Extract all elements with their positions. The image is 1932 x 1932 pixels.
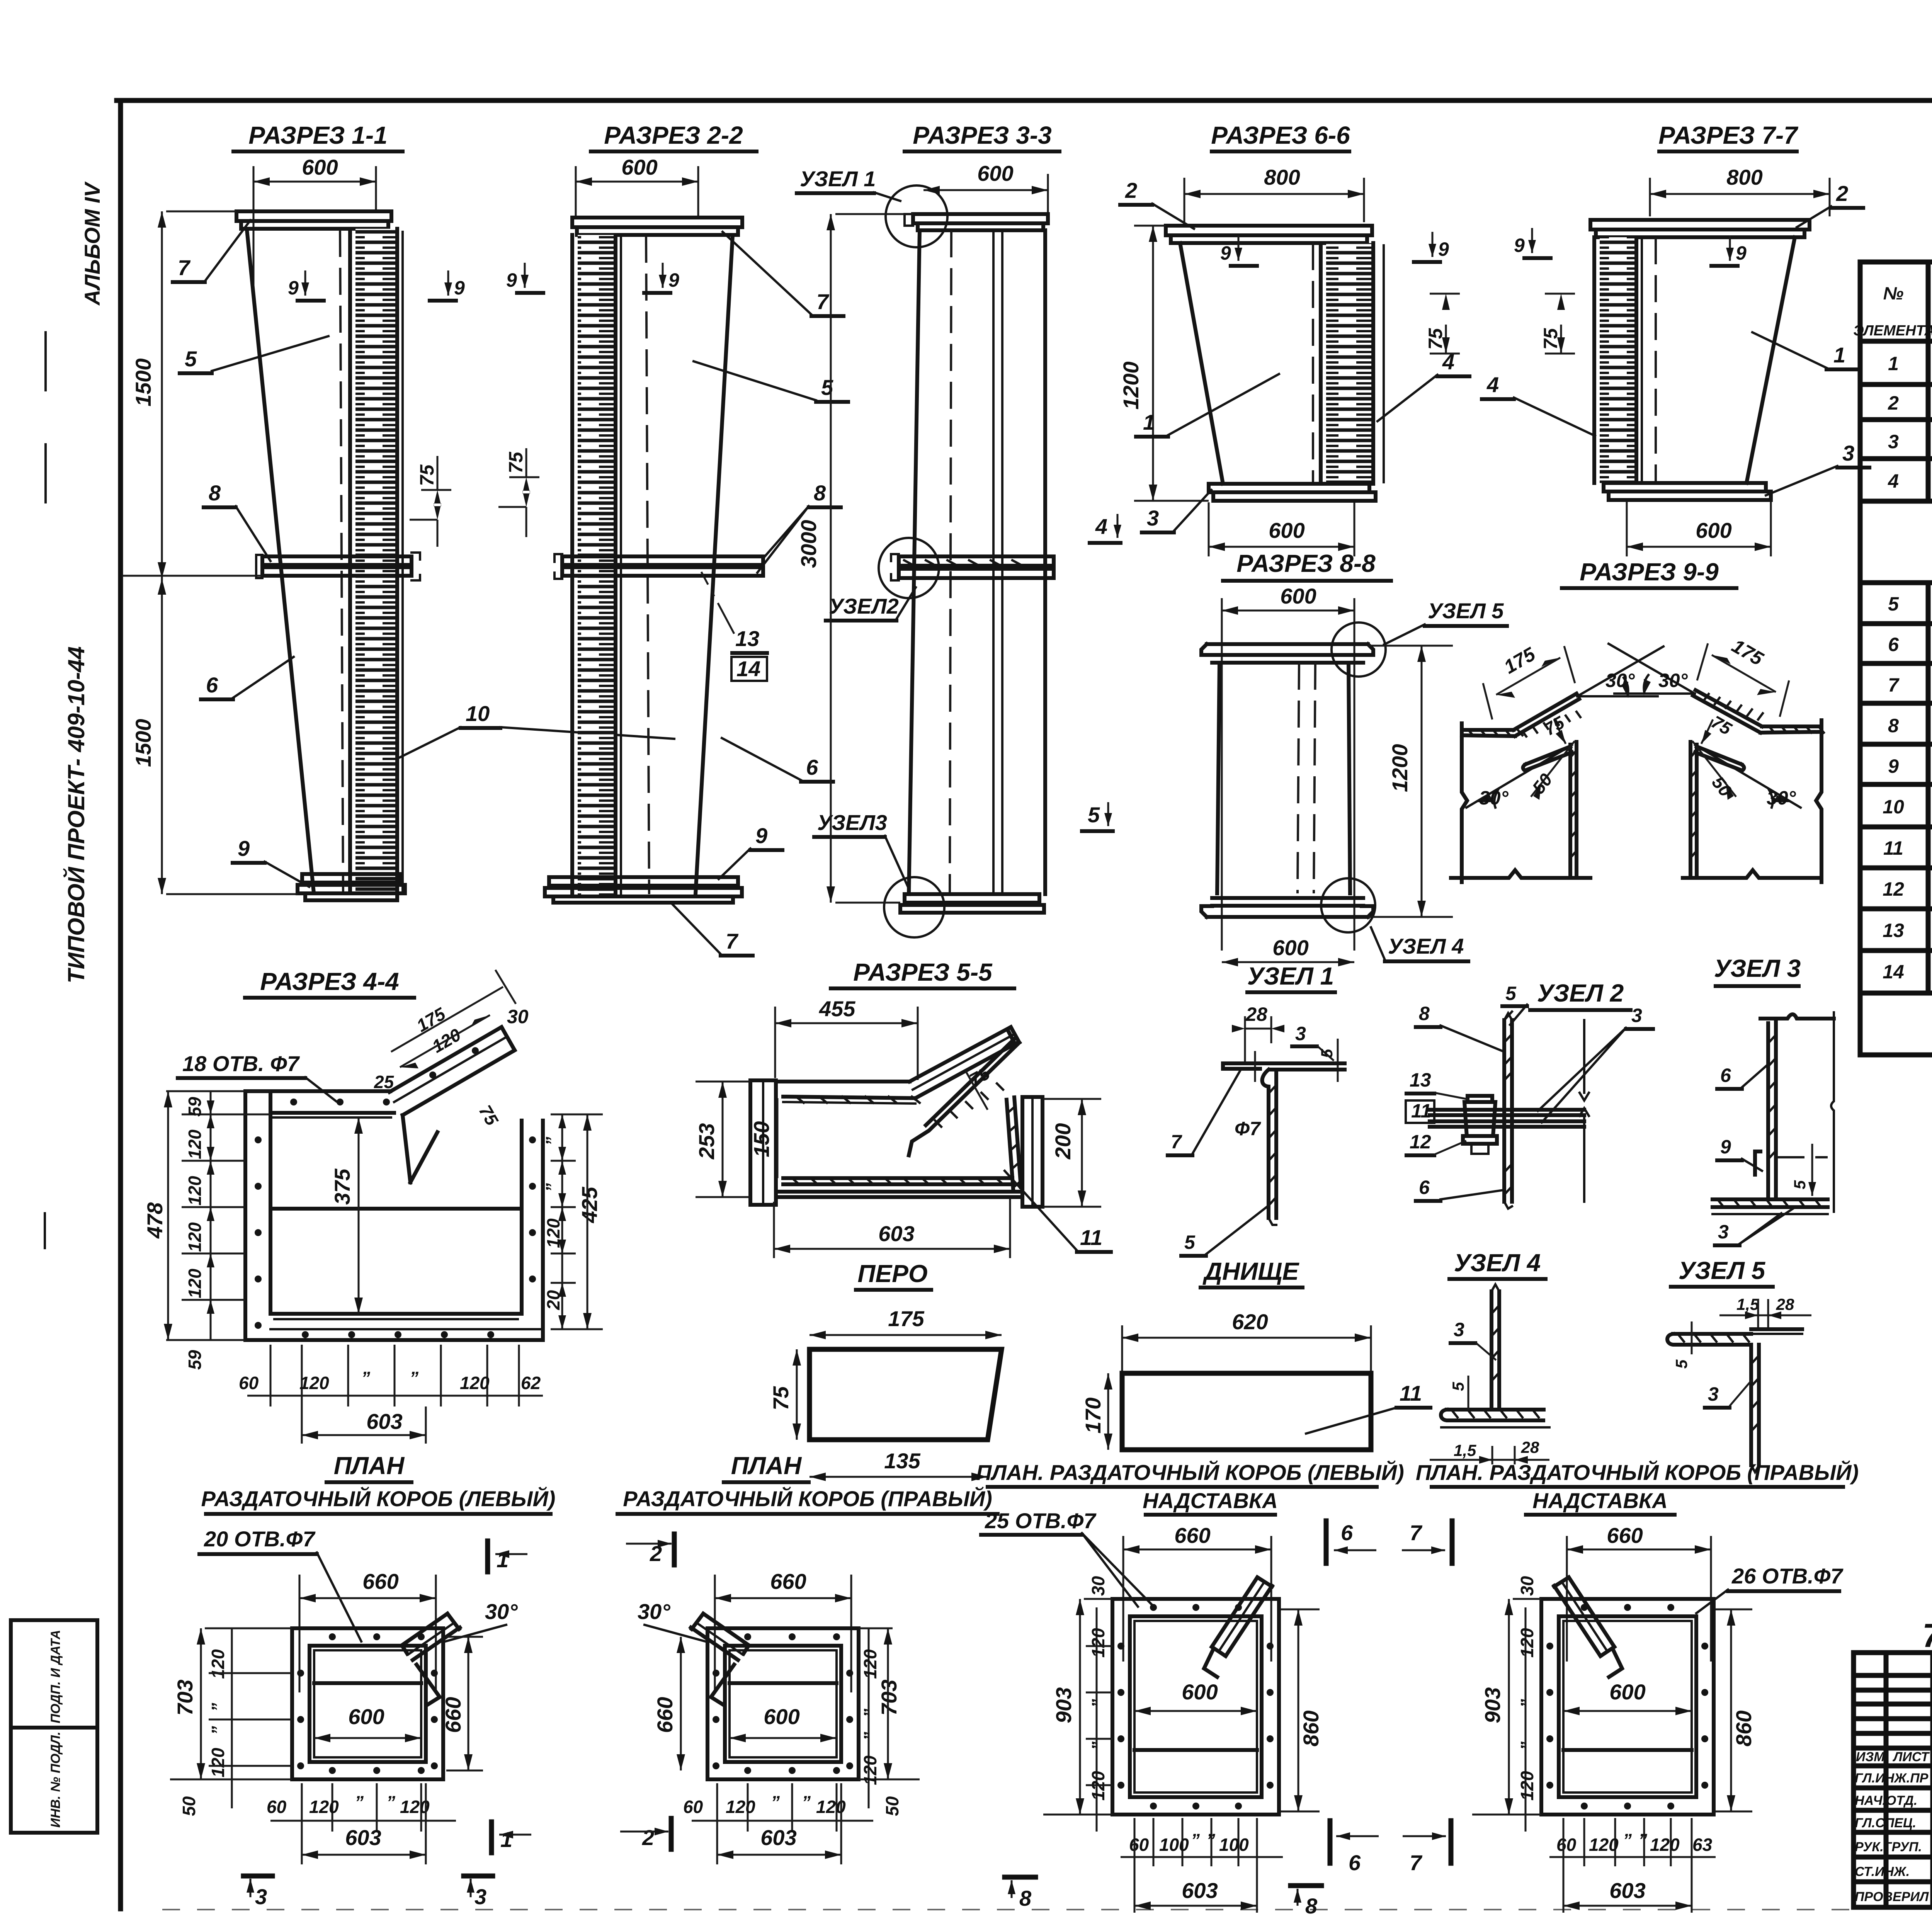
svg-text:9: 9	[506, 269, 517, 291]
vertical plate	[1490, 1291, 1493, 1410]
thin plate 3 on top	[1751, 1327, 1802, 1331]
svg-text:12: 12	[1410, 1131, 1431, 1153]
svg-text:13: 13	[1883, 920, 1904, 941]
svg-text:5: 5	[1888, 593, 1899, 615]
specification table	[1853, 231, 1932, 1055]
svg-text:7: 7	[816, 289, 830, 314]
svg-text:6: 6	[1419, 1177, 1430, 1198]
horizontal wall plate	[1462, 728, 1514, 732]
middle joint flange	[899, 556, 1054, 566]
top flange bar	[572, 218, 742, 227]
svg-text:Ф7: Ф7	[1235, 1118, 1261, 1139]
section Razrez 2-2	[498, 121, 848, 956]
svg-text:120: 120	[185, 1269, 205, 1298]
svg-text:660: 660	[1607, 1523, 1643, 1548]
left columns	[1884, 1653, 1889, 1907]
DNISHE detail	[1081, 1257, 1430, 1450]
svg-text:РАЗДАТОЧНЫЙ КОРОБ (ЛЕВЫЙ): РАЗДАТОЧНЫЙ КОРОБ (ЛЕВЫЙ)	[201, 1486, 556, 1511]
horizontal plates	[1430, 1108, 1584, 1112]
lower corner gusset	[1755, 1151, 1760, 1175]
svg-text:120: 120	[1088, 1628, 1108, 1658]
middle joint flange	[262, 556, 412, 565]
flag 9 marks	[288, 270, 465, 301]
svg-text:”: ”	[771, 1792, 780, 1812]
svg-text:11: 11	[1883, 837, 1903, 859]
box	[1112, 1599, 1279, 1815]
svg-text:УЗЕЛ2: УЗЕЛ2	[829, 594, 899, 618]
svg-text:10: 10	[1883, 796, 1904, 818]
svg-text:”: ”	[208, 1726, 228, 1735]
vertical plate	[1568, 745, 1572, 878]
vertical dim 1500+1500	[161, 211, 163, 894]
svg-text:2: 2	[1125, 178, 1137, 202]
svg-text:6: 6	[206, 673, 218, 697]
svg-text:30°: 30°	[1658, 670, 1688, 691]
svg-text:375: 375	[330, 1168, 354, 1205]
svg-text:620: 620	[1232, 1310, 1268, 1334]
svg-text:УЗЕЛ 4: УЗЕЛ 4	[1388, 934, 1464, 958]
svg-text:РАЗРЕЗ 2-2: РАЗРЕЗ 2-2	[604, 121, 743, 149]
svg-text:3000: 3000	[796, 520, 821, 568]
bottom flange with curl	[1441, 1410, 1543, 1420]
top wall	[776, 1080, 910, 1083]
bottom flange	[549, 877, 738, 886]
svg-text:13: 13	[735, 626, 759, 651]
svg-text:5: 5	[1791, 1180, 1809, 1189]
svg-text:478: 478	[143, 1202, 167, 1239]
uzel 5 detail	[1667, 1257, 1811, 1472]
svg-text:АЛЬБОМ IV: АЛЬБОМ IV	[80, 181, 104, 306]
svg-text:4: 4	[1486, 372, 1499, 397]
uzel 4 circle	[1321, 878, 1375, 932]
section Razrez 3-3	[796, 121, 1121, 937]
svg-text:УЗЕЛ 3: УЗЕЛ 3	[1714, 954, 1801, 982]
svg-text:6: 6	[1349, 1850, 1361, 1875]
svg-text:1200: 1200	[1388, 744, 1412, 792]
svg-text:425: 425	[577, 1187, 602, 1223]
frame left	[118, 100, 123, 1909]
svg-text:603: 603	[345, 1825, 381, 1850]
chute (branch) top right	[389, 1027, 502, 1092]
svg-text:РАЗРЕЗ 7-7: РАЗРЕЗ 7-7	[1658, 121, 1799, 149]
svg-text:СТ.ИНЖ.: СТ.ИНЖ.	[1855, 1864, 1910, 1879]
right band dots	[529, 1136, 536, 1143]
uzel 4 detail	[1430, 1249, 1549, 1464]
svg-text:600: 600	[1280, 584, 1316, 608]
svg-text:600: 600	[302, 155, 338, 179]
svg-text:РАЗРЕЗ 8-8: РАЗРЕЗ 8-8	[1236, 549, 1376, 577]
svg-text:8: 8	[1888, 715, 1899, 736]
svg-text:6: 6	[1888, 634, 1899, 655]
svg-text:6: 6	[806, 755, 818, 779]
top band with dots	[270, 1111, 394, 1115]
svg-text:ГЛ.ИНЖ.ПР: ГЛ.ИНЖ.ПР	[1855, 1771, 1929, 1786]
svg-text:120: 120	[1517, 1628, 1537, 1658]
svg-text:660: 660	[362, 1569, 398, 1594]
svg-text:11: 11	[1400, 1381, 1422, 1405]
bottom wall	[783, 1176, 1012, 1180]
svg-text:600: 600	[1182, 1680, 1218, 1704]
svg-text:НАДСТАВКА: НАДСТАВКА	[1532, 1488, 1668, 1513]
svg-text:60: 60	[1129, 1835, 1149, 1855]
svg-text:9: 9	[238, 836, 250, 861]
svg-text:8: 8	[814, 481, 826, 505]
svg-text:8: 8	[1419, 1003, 1430, 1024]
svg-text:5: 5	[1184, 1231, 1196, 1253]
svg-text:4: 4	[1888, 470, 1899, 492]
svg-text:№: №	[1883, 283, 1904, 303]
svg-text:”: ”	[1191, 1830, 1200, 1850]
svg-text:3: 3	[474, 1884, 486, 1909]
svg-text:28: 28	[1245, 1003, 1267, 1025]
svg-text:30: 30	[507, 1006, 529, 1027]
svg-text:60: 60	[267, 1797, 287, 1817]
svg-text:30°: 30°	[1605, 670, 1635, 691]
svg-text:УЗЕЛ 5: УЗЕЛ 5	[1679, 1257, 1766, 1284]
svg-text:”: ”	[1638, 1830, 1647, 1850]
svg-text:10: 10	[466, 701, 490, 726]
svg-text:7: 7	[1410, 1520, 1423, 1545]
svg-text:5: 5	[1318, 1049, 1336, 1058]
svg-text:5: 5	[1505, 983, 1517, 1004]
svg-text:60: 60	[239, 1373, 259, 1393]
svg-text:600: 600	[1696, 518, 1731, 543]
right vertical band	[1007, 1097, 1021, 1189]
svg-text:9: 9	[1514, 235, 1525, 256]
svg-text:120: 120	[185, 1176, 205, 1206]
svg-text:7922/8: 7922/8	[1922, 1617, 1932, 1654]
svg-text:1: 1	[1833, 343, 1845, 367]
svg-text:75: 75	[769, 1386, 793, 1410]
svg-text:РАЗРЕЗ 6-6: РАЗРЕЗ 6-6	[1211, 121, 1350, 149]
hidden dashed line	[1777, 1156, 1828, 1158]
middle joint flange	[562, 556, 763, 565]
flange plate stack left strip	[1600, 237, 1636, 483]
svg-text:120: 120	[1650, 1835, 1680, 1855]
bolt assembly	[1468, 1096, 1492, 1102]
fold line + 600	[314, 1681, 421, 1685]
dashed axis	[1312, 243, 1314, 484]
svg-text:800: 800	[1726, 165, 1762, 189]
svg-text:170: 170	[1081, 1398, 1105, 1434]
svg-text:1: 1	[1143, 410, 1155, 434]
fold lines + 600	[1134, 1748, 1257, 1752]
svg-text:25 ОТВ.Ф7: 25 ОТВ.Ф7	[985, 1509, 1097, 1533]
svg-text:”: ”	[860, 1709, 880, 1718]
svg-text:603: 603	[1609, 1878, 1645, 1903]
svg-text:”: ”	[410, 1368, 418, 1388]
left corner detail	[1451, 643, 1663, 882]
svg-text:2: 2	[1888, 392, 1899, 414]
svg-text:62: 62	[521, 1373, 541, 1393]
svg-text:1,5: 1,5	[1736, 1295, 1759, 1313]
dim 1200 left	[1152, 226, 1154, 501]
svg-text:”: ”	[860, 1732, 880, 1741]
top flange bar	[913, 214, 1048, 223]
svg-text:ПЛАН. РАЗДАТОЧНЫЙ КОРОБ (ПРАВ: ПЛАН. РАЗДАТОЧНЫЙ КОРОБ (ПРАВЫЙ)	[1416, 1460, 1859, 1485]
dim 50	[1531, 741, 1575, 797]
svg-text:63: 63	[1692, 1835, 1713, 1855]
svg-text:120: 120	[185, 1222, 205, 1252]
svg-text:600: 600	[348, 1704, 384, 1729]
svg-text:75: 75	[505, 451, 527, 473]
box	[707, 1628, 859, 1779]
left band dots	[255, 1136, 262, 1143]
svg-text:13: 13	[1410, 1069, 1431, 1091]
horizontal plates	[1223, 1061, 1345, 1065]
bottom flange	[905, 894, 1039, 903]
svg-text:”: ”	[1088, 1699, 1108, 1708]
svg-text:НАЧ.ОТД.: НАЧ.ОТД.	[1855, 1793, 1917, 1808]
right dims	[551, 1114, 603, 1116]
svg-text:28: 28	[1776, 1295, 1794, 1313]
svg-text:3: 3	[1718, 1221, 1729, 1243]
svg-text:8: 8	[1305, 1894, 1318, 1918]
svg-text:3: 3	[1147, 506, 1159, 530]
bottom dims	[747, 1783, 749, 1832]
svg-text:800: 800	[1264, 165, 1300, 189]
svg-text:”: ”	[802, 1792, 811, 1812]
svg-text:30°: 30°	[485, 1599, 518, 1624]
section flags 2	[672, 1534, 677, 1565]
plan A box	[292, 1628, 443, 1779]
chute upper slope	[910, 1027, 1016, 1098]
svg-text:9: 9	[668, 269, 679, 291]
svg-text:120: 120	[1517, 1771, 1537, 1801]
uzel 3 circle	[884, 877, 944, 937]
flange plate stack left strip	[578, 235, 616, 896]
svg-text:5: 5	[185, 347, 197, 371]
svg-text:30: 30	[1088, 1576, 1108, 1596]
svg-text:ПОДП. И ДАТА: ПОДП. И ДАТА	[48, 1630, 63, 1723]
svg-text:455: 455	[819, 997, 855, 1021]
svg-text:120: 120	[460, 1373, 490, 1393]
svg-text:9: 9	[1888, 755, 1899, 777]
svg-text:ТИПОВОЙ ПРОЕКТ- 409-10-44: ТИПОВОЙ ПРОЕКТ- 409-10-44	[63, 646, 89, 983]
svg-text:600: 600	[621, 155, 657, 179]
outer borders	[1858, 262, 1863, 1055]
svg-text:7: 7	[1888, 674, 1900, 696]
right thin edge with jog	[1831, 1012, 1834, 1212]
section flags 1	[485, 1541, 490, 1572]
plate	[1122, 1373, 1371, 1450]
svg-text:120: 120	[543, 1218, 563, 1248]
svg-text:120: 120	[208, 1649, 228, 1679]
svg-text:ЭЛЕМЕНТА: ЭЛЕМЕНТА	[1853, 323, 1932, 339]
svg-text:175: 175	[888, 1306, 924, 1331]
margin dash marks	[44, 332, 47, 390]
section Razrez 1-1	[122, 121, 674, 900]
svg-text:150: 150	[749, 1121, 774, 1157]
svg-text:120: 120	[309, 1797, 339, 1817]
svg-text:2: 2	[642, 1825, 654, 1850]
header verticals part1	[1926, 262, 1931, 501]
uzel 3 detail	[1713, 954, 1834, 1245]
svg-text:ПРОВЕРИЛ: ПРОВЕРИЛ	[1855, 1889, 1929, 1904]
chute	[402, 1614, 460, 1660]
part 2 row lines	[1860, 580, 1932, 585]
svg-text:75: 75	[416, 464, 438, 486]
svg-text:1200: 1200	[1119, 361, 1143, 410]
bottom dims	[1153, 1818, 1155, 1866]
svg-text:120: 120	[185, 1129, 205, 1159]
svg-text:703: 703	[173, 1680, 197, 1716]
svg-text:14: 14	[736, 656, 760, 681]
uzel 2 circle	[879, 538, 939, 598]
body right edge taper	[1747, 237, 1795, 483]
svg-text:26 ОТВ.Ф7: 26 ОТВ.Ф7	[1731, 1564, 1844, 1588]
box	[1541, 1599, 1714, 1815]
svg-text:”: ”	[542, 1183, 562, 1192]
svg-text:”: ”	[1623, 1830, 1632, 1850]
angle ref lines + 30deg	[1577, 695, 1658, 697]
svg-text:ПЛАН. РАЗДАТОЧНЫЙ КОРОБ (ЛЕВЫ: ПЛАН. РАЗДАТОЧНЫЙ КОРОБ (ЛЕВЫЙ)	[976, 1460, 1404, 1485]
header bottom + row lines part1	[1860, 339, 1932, 344]
uzel 5 circle	[1332, 622, 1386, 677]
dim 75	[1554, 719, 1566, 744]
svg-text:60: 60	[683, 1797, 703, 1817]
svg-text:7: 7	[1410, 1850, 1423, 1875]
uzel 1 circle	[886, 185, 947, 247]
plan C (levyi nadstavka)	[976, 1460, 1452, 1918]
bottom dims	[332, 1783, 333, 1832]
svg-text:ГЛ.СПЕЦ.: ГЛ.СПЕЦ.	[1855, 1816, 1916, 1830]
svg-text:25: 25	[374, 1072, 395, 1092]
svg-text:9: 9	[1720, 1136, 1731, 1158]
svg-text:”: ”	[208, 1703, 228, 1712]
left margin	[11, 181, 104, 1833]
svg-text:59: 59	[185, 1350, 205, 1370]
svg-text:28: 28	[1521, 1438, 1539, 1456]
svg-text:ИНВ. № ПОДЛ.: ИНВ. № ПОДЛ.	[48, 1731, 63, 1828]
section Razrez 9-9	[1451, 558, 1824, 882]
bottom flange	[1209, 484, 1369, 492]
chute mirrored	[1554, 1577, 1614, 1656]
svg-text:НАДСТАВКА: НАДСТАВКА	[1143, 1488, 1278, 1513]
svg-text:6: 6	[1720, 1065, 1731, 1086]
svg-text:УЗЕЛ3: УЗЕЛ3	[817, 810, 887, 835]
svg-text:903: 903	[1051, 1687, 1076, 1723]
svg-text:100: 100	[1219, 1835, 1249, 1855]
svg-text:”: ”	[1517, 1742, 1537, 1750]
svg-text:РАЗРЕЗ 5-5: РАЗРЕЗ 5-5	[853, 958, 993, 986]
svg-text:РУК.ГРУП.: РУК.ГРУП.	[1855, 1840, 1922, 1854]
section Razrez 7-7	[1482, 121, 1869, 556]
sloped plate 30deg	[1514, 694, 1577, 730]
svg-text:РАЗРЕЗ 9-9: РАЗРЕЗ 9-9	[1580, 558, 1719, 586]
svg-text:РАЗДАТОЧНЫЙ КОРОБ (ПРАВЫЙ): РАЗДАТОЧНЫЙ КОРОБ (ПРАВЫЙ)	[623, 1486, 992, 1511]
svg-text:”: ”	[386, 1792, 395, 1812]
dim 175 along slope	[1496, 658, 1560, 695]
right corner detail (mirror)	[1609, 635, 1824, 882]
svg-text:9: 9	[288, 277, 299, 299]
svg-text:1500: 1500	[131, 719, 155, 767]
PERO detail	[769, 1260, 1002, 1481]
svg-text:УЗЕЛ 5: УЗЕЛ 5	[1428, 599, 1504, 623]
svg-text:50: 50	[882, 1796, 902, 1816]
top flange bar	[1166, 226, 1372, 235]
short bevel plate	[1526, 747, 1570, 764]
svg-text:660: 660	[653, 1697, 677, 1733]
svg-text:660: 660	[1174, 1523, 1210, 1548]
svg-text:18 ОТВ. Ф7: 18 ОТВ. Ф7	[182, 1051, 300, 1076]
bottom flange	[1604, 483, 1766, 492]
svg-text:600: 600	[1272, 935, 1308, 960]
svg-text:20: 20	[543, 1290, 563, 1310]
bottom dims	[1583, 1818, 1585, 1866]
chute	[1212, 1577, 1272, 1656]
svg-text:1,5: 1,5	[1454, 1441, 1476, 1459]
svg-text:12: 12	[1883, 878, 1904, 900]
svg-text:11: 11	[1411, 1100, 1431, 1122]
svg-text:3: 3	[1631, 1005, 1642, 1026]
top flange bar	[1590, 220, 1810, 230]
svg-text:ПЛАН: ПЛАН	[334, 1452, 405, 1480]
flange plate stack (перо) right strip	[355, 229, 397, 893]
svg-text:200: 200	[1051, 1123, 1075, 1160]
svg-text:7: 7	[1171, 1131, 1182, 1153]
svg-text:УЗЕЛ 2: УЗЕЛ 2	[1537, 979, 1624, 1007]
svg-text:120: 120	[726, 1797, 755, 1817]
svg-text:120: 120	[1589, 1835, 1619, 1855]
svg-text:135: 135	[884, 1449, 920, 1473]
left dims	[210, 1091, 212, 1340]
svg-text:9: 9	[1438, 238, 1449, 260]
title block	[1854, 1653, 1932, 1908]
svg-text:120: 120	[860, 1649, 880, 1679]
svg-text:”: ”	[542, 1137, 562, 1146]
svg-text:ПЕРО: ПЕРО	[857, 1260, 927, 1287]
svg-text:59: 59	[185, 1097, 205, 1117]
svg-text:9: 9	[1220, 242, 1231, 264]
vertical plate with hatch	[1262, 1070, 1269, 1218]
bottom-left stamp box	[11, 1620, 97, 1833]
bottom flange	[302, 874, 400, 883]
svg-text:1: 1	[500, 1827, 512, 1852]
svg-text:600: 600	[977, 161, 1013, 185]
dashed axis	[1655, 237, 1657, 483]
trapezoid	[810, 1349, 1002, 1440]
svg-text:120: 120	[299, 1373, 329, 1393]
plan B (pravyi)	[617, 1452, 998, 1864]
svg-text:9: 9	[454, 277, 465, 299]
section Razrez 8-8	[1201, 549, 1507, 966]
section Razrez 6-6	[1119, 121, 1469, 556]
right edge with break	[1583, 1020, 1585, 1202]
svg-text:603: 603	[366, 1409, 402, 1434]
svg-text:4: 4	[1095, 514, 1107, 539]
long section trace verticals	[1221, 598, 1223, 951]
svg-text:5: 5	[1088, 803, 1100, 827]
svg-text:120: 120	[208, 1748, 228, 1777]
svg-text:3: 3	[1454, 1319, 1464, 1340]
chute mirrored	[691, 1614, 749, 1660]
svg-text:120: 120	[860, 1755, 880, 1785]
body left edge taper	[1180, 243, 1223, 484]
svg-text:9: 9	[755, 823, 767, 848]
plan D (pravyi nadstavka)	[1416, 1460, 1859, 1913]
svg-text:30: 30	[1517, 1576, 1537, 1596]
upper small rows	[1854, 1673, 1932, 1678]
section Razrez 4-4 plan	[143, 968, 603, 1444]
svg-text:3: 3	[1888, 431, 1899, 452]
svg-text:2: 2	[1836, 181, 1848, 206]
svg-text:50: 50	[179, 1796, 199, 1816]
svg-text:РАЗРЕЗ 4-4: РАЗРЕЗ 4-4	[260, 968, 399, 995]
svg-text:”: ”	[355, 1792, 364, 1812]
section flags 6 7 bottom	[1328, 1821, 1333, 1863]
section flags 3	[243, 1874, 272, 1879]
